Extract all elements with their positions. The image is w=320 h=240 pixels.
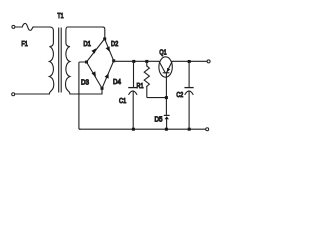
- capacitor C1 top lead: [133, 61, 135, 87]
- wire fuse to transformer: [33, 26, 50, 28]
- terminal DC bottom-right: [206, 128, 209, 131]
- svg-text:R1: R1: [137, 81, 144, 90]
- svg-text:D2: D2: [111, 39, 118, 48]
- wire secondary bottom to bridge bottom vertex: [70, 88, 102, 94]
- node base R1 junction: [165, 96, 168, 99]
- svg-text:T1: T1: [57, 11, 63, 20]
- svg-text:D3: D3: [81, 78, 89, 87]
- transformer T1 secondary winding: [66, 27, 103, 94]
- svg-text:D5: D5: [155, 115, 163, 124]
- node bottom rail C1: [132, 128, 135, 131]
- transistor Q1: [159, 57, 172, 77]
- node rail R1: [145, 60, 148, 63]
- svg-text:F1: F1: [21, 39, 27, 48]
- svg-text:D1: D1: [83, 39, 91, 48]
- diode D4: [102, 61, 114, 89]
- diode D5 (zener): [164, 114, 169, 116]
- wire left vertex to ground rail: [79, 62, 87, 129]
- transformer T1 primary winding: [49, 27, 53, 94]
- svg-text:C1: C1: [119, 96, 126, 105]
- node bottom vertex: [101, 87, 104, 90]
- capacitor C2 top lead: [188, 62, 190, 87]
- diode D1: [87, 39, 105, 62]
- capacitor C1: [129, 87, 137, 89]
- capacitor C1 bottom lead: [132, 92, 134, 129]
- diode D3: [87, 62, 103, 88]
- terminal AC bottom-left: [12, 93, 15, 96]
- fuse F1: [15, 23, 33, 30]
- node bottom rail D5: [165, 128, 168, 131]
- wire bottom rail: [80, 128, 206, 130]
- node rail C1: [132, 60, 135, 63]
- node rail C2: [188, 60, 191, 63]
- wire top rail left segment: [114, 60, 159, 63]
- transformer core: [59, 28, 62, 92]
- wire primary bottom: [15, 93, 49, 95]
- svg-text:C2: C2: [176, 90, 183, 99]
- capacitor C2 bottom lead: [188, 92, 190, 129]
- svg-text:D4: D4: [113, 77, 121, 86]
- node bottom rail C2: [188, 128, 191, 131]
- diode D2: [105, 39, 114, 61]
- node right vertex: [112, 59, 115, 62]
- svg-text:Q1: Q1: [159, 47, 166, 56]
- terminal AC top-left: [12, 25, 15, 28]
- capacitor C2: [185, 87, 193, 89]
- wire R1 bottom to base node: [147, 86, 167, 97]
- terminal DC top-right: [207, 60, 210, 63]
- node left vertex: [85, 61, 88, 64]
- wire secondary top to bridge top vertex: [103, 27, 105, 39]
- wire Q1 base down: [165, 73, 167, 115]
- wire top rail right segment: [172, 60, 207, 62]
- resistor R1: [144, 66, 149, 87]
- node top vertex: [103, 37, 106, 40]
- resistor R1 top lead: [146, 61, 148, 66]
